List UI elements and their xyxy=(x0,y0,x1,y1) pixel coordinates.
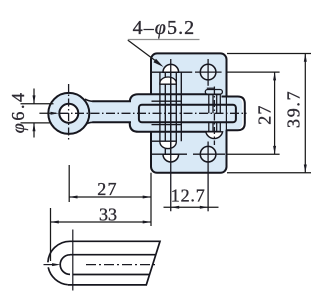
svg-text:27: 27 xyxy=(97,179,118,199)
svg-text:33: 33 xyxy=(99,204,117,224)
svg-text:4–φ5.2: 4–φ5.2 xyxy=(133,17,196,39)
svg-text:27: 27 xyxy=(254,104,274,124)
svg-text:12.7: 12.7 xyxy=(171,186,206,206)
svg-text:39.7: 39.7 xyxy=(283,90,303,128)
svg-text:φ6.4: φ6.4 xyxy=(8,90,28,133)
